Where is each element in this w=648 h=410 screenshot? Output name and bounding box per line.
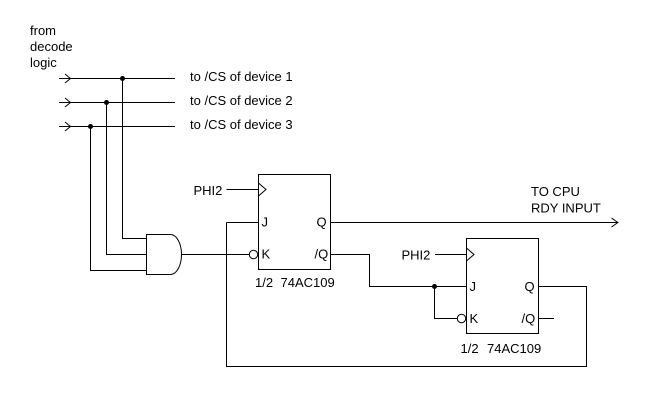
wire: AND output to U2 K bubble bbox=[181, 254, 249, 256]
svg-text:/Q: /Q bbox=[522, 311, 536, 326]
svg-text:K: K bbox=[470, 311, 479, 326]
node: junction line 3 bbox=[88, 124, 93, 129]
svg-text:74AC109: 74AC109 bbox=[281, 275, 335, 290]
svg-text:1/2: 1/2 bbox=[255, 275, 273, 290]
svg-text:PHI2: PHI2 bbox=[194, 183, 223, 198]
wire: PHI2 to U2 clock pin bbox=[227, 189, 259, 191]
wire: decode output line 1 bbox=[59, 78, 175, 80]
wire: U2 /Q output to U3 J input bbox=[331, 255, 467, 287]
arrow on line 1 bbox=[65, 74, 71, 83]
svg-text:K: K bbox=[262, 247, 271, 262]
svg-text:RDY INPUT: RDY INPUT bbox=[531, 201, 601, 216]
arrowhead to CPU bbox=[612, 218, 618, 227]
J-K flip-flop U2 body (1/2 74AC109) bbox=[259, 175, 331, 270]
svg-text:from: from bbox=[30, 23, 56, 38]
label: 1/2 74AC109 (U3) bbox=[461, 341, 542, 356]
net label "TO CPU RDY INPUT" bbox=[531, 184, 601, 216]
svg-text:J: J bbox=[262, 215, 269, 230]
node: junction on /Q net bbox=[432, 284, 437, 289]
wire: line 1 junction down to AND input A bbox=[123, 79, 147, 239]
inversion bubble on U2 K bbox=[249, 250, 257, 258]
svg-text:74AC109: 74AC109 bbox=[487, 341, 541, 356]
svg-text:to /CS of device 3: to /CS of device 3 bbox=[190, 117, 293, 132]
svg-text:1/2: 1/2 bbox=[461, 341, 479, 356]
wire: decode output line 2 bbox=[59, 102, 175, 104]
svg-text:Q: Q bbox=[525, 279, 535, 294]
wire: line 2 junction down to AND input B bbox=[107, 103, 147, 255]
wire: line 3 junction down to AND input C bbox=[91, 127, 147, 271]
wire: U3 /Q output stub bbox=[539, 318, 555, 320]
arrow on line 3 bbox=[65, 122, 71, 131]
wire: decode output line 3 bbox=[59, 126, 175, 128]
svg-text:J: J bbox=[470, 279, 477, 294]
svg-text:decode: decode bbox=[30, 39, 73, 54]
net label "from decode logic" bbox=[30, 23, 73, 70]
svg-text:/Q: /Q bbox=[315, 247, 329, 262]
svg-text:to /CS of device 1: to /CS of device 1 bbox=[190, 69, 293, 84]
wire: junction branch to U3 K bubble bbox=[435, 287, 458, 319]
svg-text:to /CS of device 2: to /CS of device 2 bbox=[190, 93, 293, 108]
wire: U2 J input from feedback net bbox=[227, 222, 259, 224]
arrow on line 2 bbox=[65, 98, 71, 107]
AND gate U1 (3-input) bbox=[147, 235, 182, 275]
svg-text:TO CPU: TO CPU bbox=[531, 184, 580, 199]
clock triangle U3 bbox=[467, 248, 475, 261]
svg-text:PHI2: PHI2 bbox=[402, 248, 431, 263]
wire: U2 Q output to CPU RDY bbox=[331, 222, 618, 224]
svg-text:Q: Q bbox=[317, 215, 327, 230]
J-K flip-flop U3 body (1/2 74AC109) bbox=[467, 239, 539, 334]
svg-text:logic: logic bbox=[30, 55, 57, 70]
wire: PHI2 to U3 clock pin bbox=[435, 254, 467, 256]
label: 1/2 74AC109 (U2) bbox=[255, 275, 335, 290]
node: junction line 1 bbox=[120, 76, 125, 81]
inversion bubble on U3 K bbox=[457, 314, 465, 322]
clock triangle U2 bbox=[259, 183, 267, 196]
node: junction line 2 bbox=[104, 100, 109, 105]
wire: U3 Q feedback loop to U2 J bbox=[227, 223, 587, 367]
